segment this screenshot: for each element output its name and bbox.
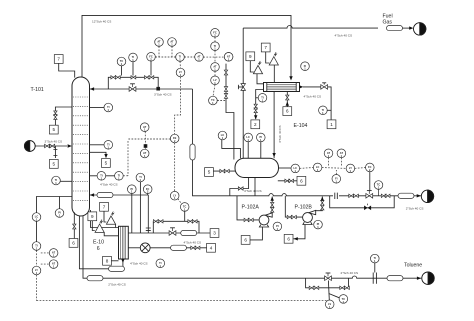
valve bottoms bypass 1: [153, 220, 158, 223]
column T-101 shell: [72, 77, 90, 216]
wire TI toluene stem: [374, 263, 376, 273]
wire pumpA drain: [250, 227, 262, 240]
wire bottoms drop: [147, 195, 149, 233]
svg-text:5: 5: [53, 162, 56, 167]
instrument PI riser 1: [128, 185, 137, 194]
flow element toluene: [387, 276, 403, 281]
arrow cw into shell: [299, 85, 303, 88]
instrument PI pump A: [273, 222, 282, 231]
arrow product out: [417, 194, 421, 197]
flange break product line: [335, 193, 338, 199]
valve bypass mid: [131, 76, 136, 79]
wire left level bridle: [37, 197, 73, 213]
instrument PI near column bottom: [55, 209, 64, 218]
control valve product: [366, 191, 373, 199]
reflux drum V-102: [235, 158, 279, 177]
valve shell drain: [286, 95, 289, 100]
wire pump B suction: [285, 196, 302, 217]
wire TV stem: [132, 62, 134, 76]
valve cw return a: [254, 104, 257, 109]
wire feed line: [35, 145, 67, 147]
flow element bottoms: [97, 192, 113, 197]
instrument LI left chain: [32, 213, 41, 222]
wire bottoms product line: [128, 232, 210, 234]
instrument TI column left: [52, 176, 61, 185]
valve bottoms bypass 2: [158, 220, 163, 223]
instrument FC bottoms: [180, 203, 189, 212]
instrument LT left chain: [32, 242, 41, 251]
instrument LIC drum right: [313, 163, 322, 172]
steam trap circle reboiler: [140, 243, 150, 253]
instrument chain AI: [211, 63, 220, 72]
instrument LY drum right: [346, 164, 355, 173]
PSV reboiler left: [95, 220, 104, 233]
flow element condensate: [171, 245, 187, 250]
instrument TI mid: [176, 53, 185, 62]
valve toluene bypass 2: [314, 286, 319, 289]
valve sample upper b: [54, 115, 57, 120]
wire box9 to reboiler PSV: [92, 221, 95, 231]
valve cw return b: [254, 108, 257, 113]
wire valve to shell: [303, 86, 321, 88]
wire TI tap: [60, 180, 72, 182]
valve condensate 1: [191, 246, 196, 249]
wire FC stem to bypass: [184, 211, 186, 221]
valve pumpB discharge: [321, 200, 324, 205]
control valve reflux: [129, 84, 136, 92]
instrument TI riser 2: [136, 173, 145, 182]
instrument alarm A left 2: [49, 260, 58, 269]
arrow shell drain: [286, 102, 289, 106]
valve pumpA suction 2: [248, 218, 253, 221]
instrument PI above E-104: [301, 62, 310, 71]
stream-in feed circle: [24, 141, 35, 152]
instrument LT drum right: [291, 164, 300, 173]
signal dashes A row: [155, 46, 175, 57]
svg-text:4"Sch 40 CS: 4"Sch 40 CS: [244, 189, 262, 193]
box 6 drain: [283, 107, 292, 116]
signal dash horizontal mid: [128, 138, 170, 140]
valve cw supply: [321, 85, 328, 90]
valve bottoms bypass 4: [192, 220, 197, 223]
svg-text:4"Sch 40 CS: 4"Sch 40 CS: [304, 95, 322, 99]
valve condensate 2: [195, 246, 200, 249]
signal dash FE down: [174, 143, 176, 192]
wire condensate line: [128, 247, 140, 249]
wire FT stem: [150, 61, 152, 75]
check valve pumpB: [321, 205, 324, 210]
wire box7 to reboiler PSV: [104, 211, 106, 222]
PSV reboiler upper: [106, 212, 115, 225]
flange break bottoms: [146, 228, 151, 230]
instrument FY bottoms: [170, 191, 179, 200]
wire PSV2 outlet: [273, 65, 275, 83]
valve bottoms bypass 3: [188, 220, 193, 223]
signal dash FY-FC: [178, 199, 182, 204]
svg-text:6: 6: [286, 109, 289, 114]
flow element fuel gas: [387, 26, 403, 31]
wire pump A suction: [237, 196, 259, 220]
wire column gauge line: [90, 175, 115, 177]
box 9 relief reboiler: [88, 212, 97, 221]
svg-text:7: 7: [264, 45, 267, 50]
valve pumpB suction 2: [292, 215, 297, 218]
valve product 4: [385, 194, 390, 197]
wire bottoms bypass: [153, 221, 199, 233]
box 5 column sample: [102, 159, 111, 168]
check valve pumpA: [271, 207, 274, 212]
arrow bottoms line into column: [90, 193, 94, 196]
svg-text:2: 2: [254, 122, 257, 127]
svg-text:6: 6: [244, 238, 247, 243]
wire sample stem: [54, 119, 56, 125]
arrow condensate into drum: [272, 153, 275, 157]
instrument TI tray upper: [104, 103, 113, 112]
wire stem to LC: [329, 294, 340, 298]
valve feed 2: [50, 144, 55, 147]
instrument LC toluene: [339, 295, 348, 304]
svg-text:4"Sch 40 CS: 4"Sch 40 CS: [130, 262, 148, 266]
signal dash gauge to analyzer loop: [123, 141, 128, 176]
wire fuel gas PCV line: [242, 28, 244, 158]
instrument LIC drum top line: [218, 131, 227, 140]
instrument TV on reflux: [129, 53, 138, 62]
svg-text:2"Sch 40 CS: 2"Sch 40 CS: [341, 271, 359, 275]
wire toluene bypass: [306, 278, 349, 288]
valve vent 1: [224, 70, 227, 75]
wire vent line with block valves: [226, 64, 234, 160]
svg-text:3"Sch 40 CS: 3"Sch 40 CS: [154, 93, 172, 97]
wire into box6 left: [73, 229, 75, 239]
instrument A drum 1: [324, 149, 333, 158]
instrument analyzer A1: [155, 38, 164, 47]
svg-text:3"Sch 40 CS: 3"Sch 40 CS: [45, 139, 63, 143]
signal dash bottom run: [37, 300, 328, 302]
instrument FC valve right: [374, 181, 383, 190]
svg-text:5: 5: [208, 170, 211, 175]
wire box7 to PSV2: [266, 52, 270, 63]
instrument TG column 1: [97, 172, 106, 181]
instrument LY left chain: [32, 266, 41, 275]
valve pumpA discharge: [271, 202, 274, 207]
svg-text:4"Sch 40 CS: 4"Sch 40 CS: [184, 240, 202, 244]
wire PSV reboiler outlet: [104, 232, 118, 235]
valve bypass 2: [115, 76, 120, 79]
pump P-102A: [259, 213, 272, 227]
instrument A mid 1: [140, 123, 149, 132]
wire PSV upper outlet: [115, 224, 117, 227]
valve toluene bypass 3: [340, 286, 345, 289]
wire box5 to drum: [213, 170, 235, 172]
wire product bypass: [330, 196, 395, 208]
box 5 sample below feed: [49, 160, 58, 169]
instrument TY: [176, 68, 185, 77]
svg-text:4"Sch 40 CS: 4"Sch 40 CS: [278, 125, 282, 143]
wire reflux into column top: [90, 88, 193, 90]
wire TI stub2: [256, 97, 259, 99]
svg-text:Toluene: Toluene: [404, 262, 422, 268]
wire column sample tap: [90, 152, 107, 155]
wire column upper tap to sample: [55, 107, 72, 111]
reboiler E-106: [119, 226, 129, 259]
wire fuel gas header: [243, 25, 378, 28]
wire overhead vapor line to E-104: [82, 15, 291, 77]
wire PI stem: [260, 142, 262, 159]
valve drum drain b: [224, 169, 229, 172]
box 8 reboiler drain: [103, 256, 112, 265]
instrument FI riser 3: [143, 185, 152, 194]
svg-text:P-102A: P-102A: [242, 204, 260, 210]
valve reboiler drain: [73, 224, 76, 229]
wire bridle mid: [36, 221, 38, 241]
junction signal mid: [144, 145, 147, 148]
valve bypass 3: [145, 76, 150, 79]
instrument FC product: [366, 163, 375, 172]
wire pump A discharge: [271, 197, 273, 214]
arrow at reboiler bottom: [121, 259, 124, 263]
svg-text:E-104: E-104: [294, 123, 308, 129]
valve vent 2: [224, 87, 227, 92]
wire riser 1: [131, 194, 133, 234]
stream-out fuel gas circle: [414, 23, 426, 35]
box 7 relief reboiler: [100, 202, 109, 211]
control valve bottoms: [169, 228, 176, 236]
instrument LI drum top 1: [244, 133, 253, 142]
valve reflux branch: [238, 187, 243, 190]
wire LIC to drum: [222, 140, 241, 158]
flow element product: [398, 193, 414, 198]
wire pumpB drain: [293, 225, 305, 239]
junction reflux bypass rejoin: [157, 87, 160, 90]
instrument chain PC bottom: [209, 96, 218, 105]
instrument A left of chain: [195, 53, 204, 62]
arrow pumpB discharge: [321, 197, 324, 201]
wire drum outlet to header: [254, 178, 256, 196]
valve drum vent b: [289, 179, 294, 182]
box 6 drum: [297, 176, 306, 185]
instrument FE mid chain: [170, 134, 179, 143]
wire into box2: [255, 113, 257, 119]
svg-text:12"Sch 40 CS: 12"Sch 40 CS: [92, 20, 111, 24]
svg-text:6: 6: [300, 178, 303, 183]
signal wires chain verticals: [203, 37, 226, 100]
svg-text:6: 6: [97, 246, 100, 252]
valve feed 1: [45, 144, 50, 147]
svg-text:8: 8: [106, 258, 109, 263]
signal dashes drum chain: [300, 158, 366, 175]
wire box7 to column top: [59, 63, 75, 77]
wire riser 2: [139, 182, 141, 233]
instrument PI drum top 2: [257, 133, 266, 142]
wire column right tap mid: [90, 144, 105, 146]
flow element vertical reflux: [190, 144, 195, 160]
wire TC stem: [121, 66, 123, 76]
svg-text:4: 4: [210, 245, 213, 250]
wire toluene CV stem: [327, 281, 330, 301]
stream-out product circle: [421, 190, 433, 202]
wire fuel gas tail: [403, 27, 412, 29]
arrow pumpA discharge: [271, 197, 274, 201]
wire column bottoms drop left: [79, 216, 123, 269]
box 6 reboiler drain: [69, 239, 78, 248]
wire drum vent to box6: [278, 180, 297, 182]
valve pumpA suction 1: [244, 218, 249, 221]
instrument chain PV: [211, 76, 220, 85]
valve product 1: [349, 194, 354, 197]
arrow into E-104 top: [289, 76, 292, 80]
svg-text:2"Sch 40 CS: 2"Sch 40 CS: [108, 283, 126, 287]
svg-text:6: 6: [72, 241, 75, 246]
instrument chain FY top: [211, 29, 220, 38]
instrument TI toluene: [371, 254, 380, 263]
wire drum level line: [279, 167, 292, 169]
instrument TI bottoms line: [156, 259, 165, 268]
box 4 condensate: [207, 243, 216, 252]
PSV E-104 top: [269, 52, 278, 65]
PSV E-104 left: [253, 61, 262, 74]
valve pumpB suction 1: [287, 215, 292, 218]
wire LI stem: [247, 142, 249, 159]
box 9 relief E-104: [246, 52, 255, 61]
svg-text:3: 3: [213, 231, 216, 236]
valve toluene bypass 4: [345, 286, 350, 289]
wire PSV outlet to E-104: [257, 74, 264, 84]
instrument chain FT: [211, 42, 220, 51]
valve product 2: [354, 194, 359, 197]
control valve toluene: [325, 273, 332, 281]
box 2 utility return: [251, 120, 260, 129]
svg-text:5: 5: [53, 127, 56, 132]
instrument TI condensate: [258, 94, 267, 103]
instrument PI pump B: [314, 220, 323, 229]
svg-text:E-10: E-10: [93, 240, 104, 246]
flow element bottoms toluene: [87, 276, 103, 281]
instrument A mid 2: [140, 149, 149, 158]
svg-text:7: 7: [57, 57, 60, 62]
wire pump B discharge: [316, 197, 323, 211]
svg-text:2"Sch 40 CS: 2"Sch 40 CS: [406, 206, 424, 210]
angle control valve PCV fuel: [241, 84, 246, 91]
svg-text:T-101: T-101: [31, 87, 44, 93]
box 5 sample upper: [49, 125, 58, 134]
signal dash A mid stem: [144, 132, 146, 149]
instrument FI below chain: [332, 175, 341, 184]
wire TI stub: [327, 109, 331, 111]
svg-text:Gas: Gas: [383, 20, 393, 26]
wire PI stem: [59, 197, 61, 209]
signal dash TI-TY: [175, 57, 195, 134]
wire box8 stub: [111, 260, 118, 262]
valve toluene bypass 1: [309, 286, 314, 289]
instrument TI tray mid: [104, 141, 113, 150]
instrument A right of chain: [224, 53, 233, 62]
svg-text:7: 7: [103, 204, 106, 209]
wire cw return to box 2: [256, 90, 264, 105]
wire reflux bypass: [108, 77, 158, 89]
wire pump suction-discharge header: [230, 194, 421, 196]
orifice flanges toluene: [373, 273, 376, 284]
box 7 relief E-104: [261, 43, 270, 52]
wire condensate line 2: [150, 247, 207, 249]
stream-out toluene circle: [422, 272, 434, 284]
flow element reboiler feed: [109, 266, 125, 271]
instrument analyzer A2: [168, 38, 177, 47]
svg-text:4"Sch 40 CS: 4"Sch 40 CS: [335, 34, 353, 38]
wire toluene bottoms drop: [83, 216, 421, 279]
svg-text:4"Sch 40 CS: 4"Sch 40 CS: [100, 182, 118, 186]
box 5 drum drain: [205, 168, 214, 177]
valve vent 3: [224, 94, 227, 99]
wire reboiler vapor return: [91, 210, 119, 228]
arrow feed into column: [68, 144, 72, 147]
arrow toluene out: [417, 277, 421, 280]
valve product bypass closed: [364, 206, 371, 211]
arrow reflux into column: [90, 87, 94, 90]
valve product 3: [381, 194, 386, 197]
arrow into box6 pumpB: [294, 237, 298, 240]
instrument alarm A left 1: [49, 249, 58, 258]
instrument TI cw: [319, 106, 328, 115]
svg-text:6: 6: [287, 236, 290, 241]
box 7 relief at column top: [54, 55, 63, 64]
svg-text:5: 5: [105, 161, 108, 166]
valve drum drain a: [220, 169, 225, 172]
svg-text:9: 9: [249, 54, 252, 59]
arrow sample into box: [104, 154, 107, 158]
wire reflux to column riser: [193, 89, 230, 196]
heat exchanger E-104: [264, 83, 300, 92]
valve drum vent a: [285, 179, 290, 182]
flow element bottoms product: [181, 230, 197, 235]
instrument LV toluene: [325, 300, 334, 309]
wire box9 to PSV: [250, 61, 254, 72]
instrument A right of chain: [224, 53, 233, 62]
instrument TG column 2: [115, 172, 124, 181]
valve bypass 4: [149, 76, 154, 79]
pump P-102B: [303, 210, 316, 224]
svg-text:1: 1: [330, 122, 333, 127]
wire FC stem to control valve: [369, 172, 371, 191]
column T-101 trays: [73, 97, 89, 200]
signal dash bridle lower: [37, 250, 50, 300]
valve bypass 1: [111, 76, 116, 79]
arrow fuel gas: [409, 26, 413, 29]
arrow into box2: [254, 115, 257, 119]
box 3 battery limit: [210, 229, 219, 238]
wire reboiler drain: [73, 212, 75, 224]
orifice symbol under feed: [53, 146, 57, 158]
instrument A drum 2: [337, 149, 346, 158]
instrument FT on reflux: [147, 53, 156, 62]
wire riser 3: [147, 194, 149, 196]
svg-text:9: 9: [91, 214, 94, 219]
wire reflux branch from drum: [230, 178, 249, 196]
MAIN CONTENT: [24, 14, 434, 309]
instrument TC on reflux: [117, 57, 126, 66]
wire E-104 shell drain: [286, 92, 288, 107]
box 1 utility: [327, 120, 336, 129]
box 6 pump B drain: [284, 234, 293, 243]
wire column right tap upper: [90, 107, 105, 109]
wire bottoms takeoff: [90, 194, 149, 196]
svg-text:P-102B: P-102B: [295, 204, 313, 210]
box 6 pump A drain: [241, 236, 250, 245]
wire condensate downcomer: [273, 92, 275, 159]
wire cw supply from box 1: [328, 87, 331, 120]
valve sample upper a: [54, 111, 57, 116]
